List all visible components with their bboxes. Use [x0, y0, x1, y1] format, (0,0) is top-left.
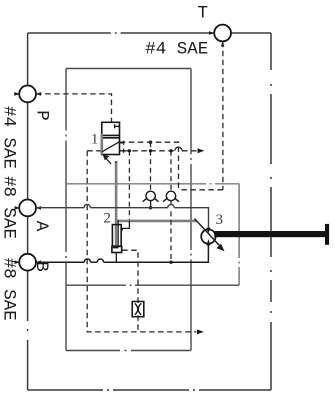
handle T-bar	[325, 224, 329, 245]
port P	[19, 86, 36, 103]
thick flow line from valve 1 down	[115, 162, 118, 247]
svg-text:A: A	[31, 221, 51, 232]
valve U1 body outline	[102, 122, 120, 154]
wire: check ball 1 to A line	[150, 201, 152, 208]
check ball 2	[163, 191, 179, 202]
svg-text:1: 1	[91, 132, 99, 148]
arrow at end of pilot line 2	[198, 148, 205, 153]
needle valve 3 circle	[201, 229, 215, 243]
pilot line from P (dashed)	[36, 94, 111, 122]
valve U1 top-section blocked stub	[115, 124, 120, 128]
wire: A line with hops	[36, 208, 208, 230]
svg-text:2: 2	[103, 210, 111, 226]
wire: B line with hops	[36, 244, 208, 262]
arrow into port T left	[209, 31, 214, 35]
wire: dashed from cartridge 2 to orifice plug	[122, 250, 138, 332]
cartridge 2 stem (black)	[117, 220, 119, 247]
svg-text:#4 SAE: #4 SAE	[0, 106, 19, 169]
arrows into port B	[15, 260, 42, 264]
svg-text:#4 SAE: #4 SAE	[145, 40, 208, 60]
wire: dashed drop to check ball 1	[150, 142, 152, 191]
junction dots on pilot lines	[128, 141, 173, 153]
arrow at end of dashed boundary bottom	[197, 329, 204, 334]
valve U1 thick gray left edge	[101, 134, 104, 155]
wire: pilot line 2 from valve with hop (dashed)	[123, 150, 197, 152]
thick flow line horizontal to needle valve	[115, 220, 197, 223]
valve U1 bottom-section diagonal	[102, 142, 119, 152]
valve body box (dash-dot rectangle)	[66, 69, 191, 351]
svg-text:B: B	[31, 261, 51, 272]
cartridge 2 seat cap	[113, 246, 118, 248]
needle valve 3 adjust arrow	[195, 219, 220, 246]
handle bar of needle valve	[214, 231, 327, 237]
needle valve 3 flow arrows	[206, 228, 210, 246]
junction dot on B line	[169, 261, 172, 264]
wire: dashed drop to check ball 2	[170, 151, 172, 191]
port T	[214, 25, 231, 42]
svg-text:#8 SAE: #8 SAE	[0, 176, 19, 239]
cartridge 2 body	[112, 225, 122, 253]
enclosure border (outer dash-dot envelope)	[28, 33, 271, 390]
valve U1 pilot arrow (points to box corner)	[106, 158, 111, 164]
wire: cartridge 2 to B line	[115, 253, 117, 263]
junction dot on A line	[149, 206, 152, 209]
wire: dashed drop to flow line (x=129.4)	[128, 151, 130, 220]
port B	[19, 254, 36, 271]
wire: pilot line 1 from valve to drain (dashed)	[120, 142, 179, 190]
valve U1 right stubs	[120, 141, 124, 153]
svg-text:3: 3	[216, 212, 224, 228]
pilot hook into cartridge 2	[122, 221, 129, 231]
port A	[19, 200, 36, 217]
dashed external boundary with arrows (X/Y lines)	[87, 151, 196, 332]
check ball 1	[143, 191, 159, 202]
svg-text:P: P	[31, 110, 51, 121]
wire: check ball 2 dashed to B line	[170, 201, 172, 263]
arrows into port A	[15, 206, 42, 210]
svg-text:#8 SAE: #8 SAE	[0, 258, 19, 321]
arrow into port T bottom	[221, 41, 225, 46]
internal zone box (gray dash-dot cavity boundary)	[66, 184, 239, 285]
svg-text:T: T	[198, 4, 209, 24]
orifice plug (X in box)	[132, 302, 144, 317]
arrows into port P	[15, 92, 42, 96]
drain line to T (dashed)	[179, 42, 223, 190]
